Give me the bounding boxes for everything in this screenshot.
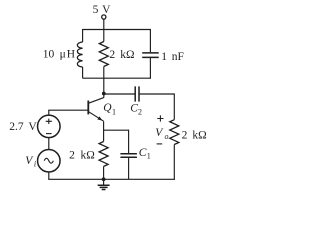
- output plus sign: [157, 115, 163, 121]
- output minus sign: [157, 143, 163, 145]
- svg-text:V: V: [155, 127, 164, 139]
- svg-text:10: 10: [43, 49, 55, 61]
- svg-text:C: C: [130, 103, 138, 115]
- wire emitter tap to C1: [104, 129, 129, 131]
- source V1 minus sign: [46, 133, 52, 135]
- transistor Q1 collector diagonal: [89, 98, 104, 104]
- wire tank right leads: [149, 29, 151, 79]
- inductor L1 10uH: [77, 42, 82, 67]
- node VCC terminal: [102, 15, 106, 19]
- svg-text:1: 1: [161, 51, 167, 63]
- wire 5V stub: [103, 19, 105, 29]
- svg-text:2: 2: [138, 107, 142, 116]
- transistor Q1 bar: [87, 101, 89, 115]
- resistor R1 2k (tank): [99, 42, 108, 67]
- svg-text:2: 2: [109, 49, 115, 61]
- wire tank middle leads: [103, 30, 105, 79]
- transistor Q1 emitter arrow: [97, 116, 102, 120]
- node ground junction dot: [102, 177, 106, 181]
- svg-text:1: 1: [147, 152, 151, 161]
- svg-text:kΩ: kΩ: [192, 129, 206, 141]
- resistor RL 2k (load): [170, 120, 179, 145]
- svg-text:2: 2: [182, 129, 188, 141]
- wire tank top rail: [83, 29, 151, 31]
- svg-text:nF: nF: [172, 51, 184, 63]
- svg-text:V: V: [102, 4, 111, 16]
- svg-text:kΩ: kΩ: [120, 49, 134, 61]
- wire emitter down: [103, 121, 105, 179]
- wire C1 lower lead: [128, 158, 130, 180]
- svg-text:5: 5: [93, 4, 99, 16]
- wire collector feed: [103, 78, 105, 98]
- svg-text:2.7: 2.7: [9, 121, 24, 133]
- capacitor 1nF plates: [142, 53, 159, 58]
- wire C2 right to output corner: [140, 93, 175, 95]
- capacitor C1 plates: [120, 154, 136, 158]
- ground: [103, 179, 105, 185]
- source V1 plus sign: [46, 119, 52, 124]
- svg-text:Q: Q: [103, 102, 112, 114]
- wire below Vi: [48, 172, 50, 179]
- svg-text:2: 2: [69, 150, 75, 162]
- source Vi circle: [38, 150, 61, 173]
- svg-text:i: i: [34, 160, 36, 169]
- source Vi sine: [44, 158, 53, 163]
- svg-text:kΩ: kΩ: [81, 150, 95, 162]
- wire base: [48, 109, 87, 111]
- source V1 2.7V circle: [38, 115, 61, 138]
- svg-text:1: 1: [112, 108, 116, 117]
- capacitor C2 plates: [135, 86, 139, 101]
- svg-text:V: V: [28, 121, 37, 133]
- wire C2 left: [104, 93, 135, 95]
- transistor Q1 emitter diagonal: [89, 112, 104, 122]
- wire between sources: [48, 138, 50, 150]
- svg-text:o: o: [165, 132, 169, 141]
- wire tank bottom rail: [83, 77, 151, 79]
- node collector junction dot: [102, 92, 106, 96]
- wire output branch upper: [173, 93, 175, 119]
- svg-text:C: C: [139, 147, 147, 159]
- wire bottom rail: [48, 178, 175, 180]
- wire tank left leads: [82, 29, 84, 78]
- wire C1 upper lead: [128, 130, 130, 154]
- svg-text:μH: μH: [60, 49, 76, 61]
- wire source branch top corner: [48, 110, 50, 115]
- resistor RE 2k (emitter): [99, 142, 108, 167]
- wire output branch lower: [173, 145, 175, 180]
